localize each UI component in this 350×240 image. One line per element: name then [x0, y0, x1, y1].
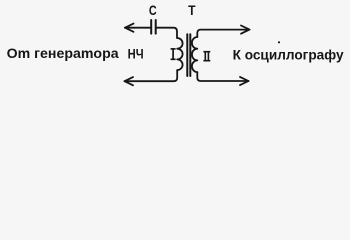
svg-text:T: T — [188, 2, 196, 18]
svg-text:C: C — [149, 2, 157, 18]
svg-text:Оm генераmора: Оm генераmора — [7, 46, 119, 61]
svg-text:НЧ: НЧ — [128, 46, 144, 62]
svg-text:К осциллографу: К осциллографу — [233, 47, 344, 63]
